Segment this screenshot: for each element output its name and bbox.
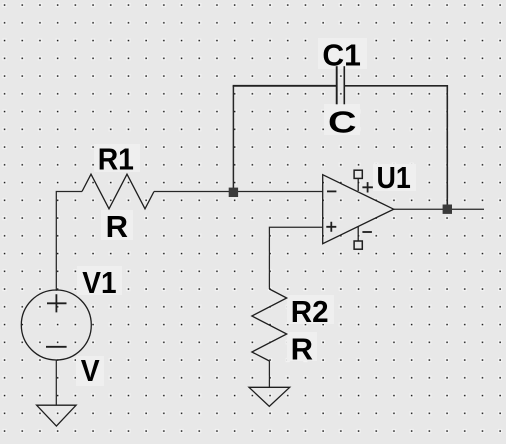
label halo V <box>76 356 104 386</box>
junction node at output <box>443 205 452 214</box>
label halo U1 <box>373 164 416 191</box>
label halo C1 <box>318 38 367 69</box>
wire: V1 bottom to ground <box>55 360 57 405</box>
svg-text:R1: R1 <box>98 141 134 176</box>
svg-text:V1: V1 <box>82 265 116 300</box>
wire: op-amp non-inverting input to R2 <box>269 227 322 289</box>
positive supply plus label <box>362 182 373 192</box>
wire: V1 top to R1 (node at x56 up and right) <box>56 192 82 291</box>
label halo V1 <box>77 266 122 295</box>
label halo R1 <box>94 144 140 172</box>
svg-text:C1: C1 <box>322 38 361 73</box>
negative supply minus label <box>362 231 372 233</box>
positive supply pin square <box>354 170 362 178</box>
inverting input minus sign <box>327 190 336 192</box>
label halo C <box>324 104 360 135</box>
capacitor C1 <box>337 66 345 104</box>
label halo R2 <box>287 295 334 324</box>
wire: op-amp output to right edge <box>394 208 484 210</box>
wire: feedback left vertical and top run to C1 <box>232 86 234 192</box>
op-amp U1 <box>323 170 394 249</box>
label halo R value of R2 <box>287 332 317 361</box>
voltage source V1 <box>21 290 91 360</box>
svg-text:R2: R2 <box>291 294 329 329</box>
op-amp triangle body <box>323 175 394 244</box>
ground under R2 <box>249 387 290 406</box>
wire: R2 to ground <box>268 361 270 387</box>
svg-text:V: V <box>81 353 100 388</box>
svg-text:C: C <box>328 104 357 139</box>
negative supply pin square <box>354 241 362 249</box>
V1 plus sign <box>47 294 67 312</box>
wire: R1 to op-amp inverting input (through junction) <box>154 191 323 193</box>
non-inverting input plus sign <box>326 222 336 232</box>
label halo R value of R1 <box>101 210 133 240</box>
V1 circle body <box>21 290 91 360</box>
resistor R1 <box>82 174 154 209</box>
resistor R2 <box>252 289 287 361</box>
svg-text:R: R <box>106 209 128 244</box>
V1 minus sign <box>46 346 67 348</box>
svg-text:R: R <box>291 331 313 366</box>
svg-text:U1: U1 <box>377 160 411 195</box>
wire: C1 right to output node <box>344 86 447 205</box>
junction node at inverting input <box>229 188 238 197</box>
positive supply pin stub <box>357 179 359 192</box>
negative supply pin stub <box>357 227 359 242</box>
ground under V1 <box>37 405 77 426</box>
